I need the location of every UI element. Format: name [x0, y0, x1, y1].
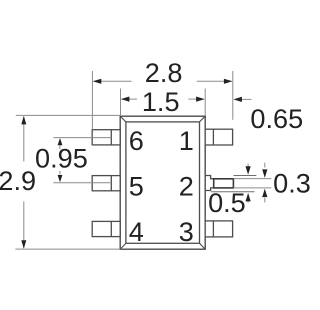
- dimension 0.5 upper arrow (points down) with tail: [246, 164, 251, 175]
- svg-text:0.5: 0.5: [208, 187, 246, 218]
- dimension 2.8 line left segment with arrowhead: [93, 79, 132, 84]
- package body top-face inner outline: [126, 122, 200, 243]
- dimension 2.9 bottom extension line: [15, 248, 120, 250]
- dimension 0.5 lower arrow (points up) with tail: [246, 193, 251, 203]
- dimension 0.95 upper leader line (pin 6 centerline): [53, 137, 111, 139]
- dimension 1.5 line left segment with arrowhead: [121, 97, 137, 102]
- svg-text:3: 3: [179, 216, 194, 247]
- dimension 0.3 upper arrow (points down) with tail: [262, 163, 267, 178]
- dimension 0.5 upper extension line (pin2 stub top): [234, 175, 257, 177]
- dimension 0.3 lower extension line (pin2 foot bottom): [234, 187, 272, 189]
- svg-text:2.9: 2.9: [0, 165, 36, 196]
- dimension 2.8 line right segment with arrowhead: [197, 79, 233, 84]
- dimension 2.8 / 0.65 right extension line: [232, 71, 234, 120]
- body corner bevel top-left: [120, 116, 126, 122]
- pin 3 lead (bottom right): [205, 221, 232, 237]
- svg-text:0.95: 0.95: [35, 142, 88, 173]
- svg-text:6: 6: [129, 125, 144, 156]
- pin 5 lead (middle left): [92, 176, 120, 191]
- dimension 0.95 lower leader line (pin 5 centerline): [53, 182, 111, 184]
- dimension 0.65 arrow (points left) with tail: [233, 97, 251, 102]
- pin 1 lead (top right): [205, 129, 232, 145]
- pin 2 lead foot (thick rectangle): [214, 179, 234, 188]
- dimension 2.8 left extension line: [91, 71, 93, 130]
- svg-text:5: 5: [129, 170, 144, 201]
- body corner bevel bottom-right: [200, 243, 206, 249]
- svg-text:2.8: 2.8: [145, 57, 183, 88]
- dimension 0.5 lower extension line (pin2 stub bottom): [211, 191, 255, 193]
- pin 2 lead stub (middle right, detailed): [205, 176, 214, 191]
- pin 6 lead (top left): [92, 130, 120, 145]
- package body outer outline: [120, 116, 205, 249]
- svg-text:0.3: 0.3: [273, 168, 310, 199]
- dimension 0.95 upper arrow (points up) with tail: [58, 138, 63, 149]
- body corner bevel bottom-left: [120, 243, 126, 249]
- svg-text:1: 1: [179, 125, 194, 156]
- dimension 0.95 lower arrow (points down) with tail: [58, 171, 63, 182]
- svg-text:2: 2: [179, 170, 194, 201]
- svg-text:1.5: 1.5: [142, 86, 180, 117]
- dimension 1.5 line right segment with arrowhead: [188, 97, 204, 102]
- dimension 1.5 right extension line: [204, 89, 206, 117]
- body corner bevel top-right: [200, 116, 206, 122]
- dimension 2.9 top extension line: [16, 114, 120, 116]
- dimension 2.9 vertical line lower segment with arrowhead: [21, 202, 26, 249]
- dimension 0.3 lower arrow (points up) with tail: [262, 189, 267, 203]
- dimension 0.3 upper extension line (pin2 foot top): [234, 178, 272, 180]
- dimension 1.5 left extension line: [120, 89, 122, 117]
- svg-text:4: 4: [129, 216, 144, 247]
- svg-text:0.65: 0.65: [250, 103, 303, 134]
- pin 4 lead (bottom left): [92, 221, 120, 236]
- dimension 2.9 vertical line upper segment with arrowhead: [21, 116, 26, 162]
